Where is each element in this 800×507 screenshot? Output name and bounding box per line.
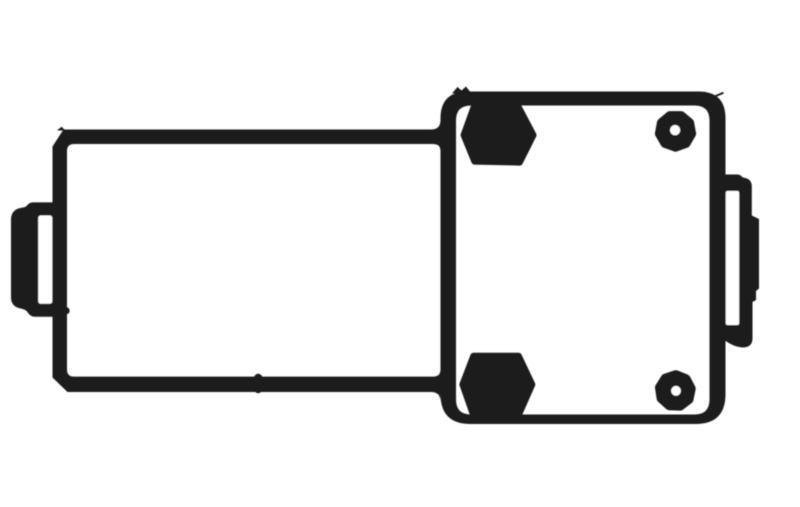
hole of top washer	[670, 125, 680, 135]
hole of bottom washer	[671, 386, 681, 396]
right handle slot	[726, 191, 740, 325]
hex pad bottom-left of panel	[463, 356, 532, 414]
whisker artifact at panel top-right corner	[712, 93, 723, 98]
small nub on inner side of frame left bar	[64, 307, 69, 314]
washer top-right of panel	[660, 116, 692, 147]
tiny spike at frame top-left corner	[57, 127, 66, 131]
hex pad top-left of panel	[464, 107, 533, 162]
left handle body	[11, 202, 53, 316]
left handle slot	[38, 216, 52, 304]
fillet top outer at frame/panel junction	[431, 120, 441, 130]
spike artifact at panel top-left corner	[452, 87, 472, 94]
sprue node on frame bottom bar	[252, 374, 264, 393]
washer bottom-right of panel	[660, 375, 692, 406]
right panel (rounded square outline)	[441, 92, 726, 425]
left frame (large rounded-rectangle outline)	[53, 130, 451, 393]
fillet top inner at frame/panel junction	[434, 144, 441, 151]
fillet bottom outer at frame/panel junction	[431, 392, 441, 402]
fillet bottom inner at frame/panel junction	[434, 370, 441, 377]
right handle body	[725, 175, 759, 348]
